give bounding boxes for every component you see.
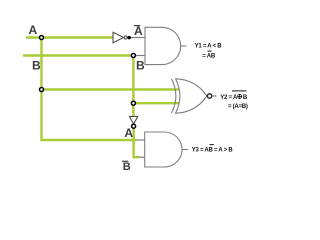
svg-text:B: B xyxy=(123,161,131,173)
node on A wire xyxy=(40,36,44,40)
svg-text:B: B xyxy=(136,58,145,72)
label Y1 equation line 2 with overline on A xyxy=(202,51,216,59)
svg-text:B: B xyxy=(32,58,41,72)
wire B horizontal input xyxy=(23,54,133,56)
wire B vertical branch xyxy=(132,56,134,117)
junction dot after U1 xyxy=(128,36,131,39)
svg-text:Y2 = A: Y2 = A xyxy=(220,95,238,101)
node on B wire xyxy=(131,54,135,58)
xnor-gate Y2 body xyxy=(176,79,208,113)
xnor-gate Y2 back arc xyxy=(172,79,176,113)
wire Bbar vertical from NOT U2 output xyxy=(134,127,139,157)
not-gate U1 xyxy=(113,32,127,42)
xor symbol in Y2 label xyxy=(237,94,242,99)
wire gray Y2 output lead xyxy=(212,95,217,97)
label Y3 equation with overline on B xyxy=(192,145,234,154)
svg-text:B: B xyxy=(243,95,248,101)
svg-text:Y3 = AB = A > B: Y3 = AB = A > B xyxy=(192,148,234,154)
wire B to XNOR bottom input xyxy=(133,102,179,104)
svg-text:Y1 = A < B: Y1 = A < B xyxy=(195,44,223,50)
svg-text:A: A xyxy=(124,126,133,140)
svg-text:= (A=B): = (A=B) xyxy=(228,104,248,110)
node on B vertical at XNOR input xyxy=(131,101,135,105)
svg-text:A: A xyxy=(29,23,38,37)
wire A to XNOR top input xyxy=(42,88,180,90)
wire stub gray B to AND Y1 xyxy=(133,55,145,57)
not-gate U2 pointing down xyxy=(130,116,138,124)
label Bbar at AND Y3 input xyxy=(122,161,131,173)
wire stub gray AND Y3 top input xyxy=(137,139,146,141)
and-gate Y1 xyxy=(145,27,187,64)
wire A vertical branch xyxy=(42,38,137,141)
svg-text:= AB: = AB xyxy=(202,53,216,59)
wire stub gray AND Y3 bottom input xyxy=(139,156,145,158)
label Y2 equation line 1 with overline xyxy=(220,91,248,101)
wire A horizontal input xyxy=(26,36,113,38)
svg-text:A: A xyxy=(134,24,143,38)
and-gate Y3 xyxy=(145,132,188,167)
label Abar at NOT U1 output xyxy=(134,24,143,38)
xnor-gate Y2 bubble xyxy=(207,94,211,98)
wire gray NOT U1 output to AND Y1 top input xyxy=(127,37,145,39)
node at NOT U2 output xyxy=(132,124,136,128)
node on A vertical at XNOR input xyxy=(40,88,44,92)
